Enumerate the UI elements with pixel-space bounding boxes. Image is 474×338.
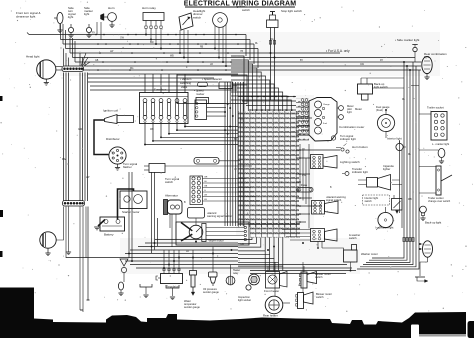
svg-text:Alternator: Alternator (165, 194, 178, 198)
ground rear combination light (424, 77, 429, 80)
ground head light left (44, 83, 49, 86)
lamp front turn signal and clearance light (16, 11, 63, 30)
lamp side turn signal light (68, 6, 76, 35)
svg-text:Ignition coil: Ignition coil (103, 109, 118, 113)
ground lower-left wire end (66, 249, 71, 255)
svg-text:Back-up light: Back-up light (425, 221, 441, 225)
lamp turn signal indicator light (331, 134, 356, 141)
relay heater relay (226, 265, 240, 285)
lamp rear combination light (421, 52, 447, 77)
ground battery (94, 227, 100, 230)
svg-text:light: light (68, 15, 73, 19)
wire dense crossing mesh lower rows (250, 222, 300, 238)
node for USA only (326, 49, 350, 53)
switch headlight dimmer switch (179, 9, 205, 62)
switch blower motor switch upper (299, 266, 331, 288)
svg-text:• Speed: • Speed (194, 88, 204, 92)
vacuum switching valve (177, 75, 247, 104)
gauge combination meter (309, 98, 364, 142)
switch blower motor switch lower (296, 262, 332, 309)
wire left vertical harness bundle (62, 49, 90, 202)
svg-text:clearance light: clearance light (16, 14, 36, 18)
distributor (106, 137, 126, 168)
svg-text:Horn button: Horn button (352, 145, 368, 149)
switch horn button (336, 144, 368, 154)
front heater blower (264, 266, 287, 293)
svg-text:(Fuel): (Fuel) (376, 108, 383, 112)
wire mesh right edge verticals (300, 144, 309, 229)
svg-text:switch: switch (316, 295, 324, 299)
switch hazard warning signal switch (312, 195, 347, 214)
svg-text:GR: GR (204, 177, 208, 179)
oil pressure sender gauge (203, 247, 219, 295)
lamp meter pilot light (337, 104, 354, 119)
svg-text:light switch: light switch (374, 85, 388, 89)
svg-text:change over switch: change over switch (428, 199, 451, 203)
lamp license plate light (120, 259, 128, 282)
switch interior light switch (363, 195, 403, 214)
battery (98, 189, 134, 237)
svg-text:Starter motor: Starter motor (122, 210, 140, 214)
svg-text:warning signal flasher: warning signal flasher (207, 214, 232, 218)
node wire color code labels (92, 33, 406, 253)
switch wiper and washer switch (311, 226, 394, 242)
title (184, 0, 297, 7)
ground side marker lamp (86, 35, 91, 38)
ground distributor (115, 168, 120, 171)
svg-text:sender gauge: sender gauge (184, 305, 200, 309)
wire trunk right branches (373, 62, 422, 270)
scan artifact left black block (0, 288, 34, 320)
ground horn (109, 25, 114, 28)
wire top harness bus (27, 24, 421, 74)
svg-text:L...marker light: L...marker light (432, 142, 449, 146)
svg-text:switch: switch (165, 180, 173, 184)
svg-text:switching: switching (180, 81, 192, 85)
lamp side marker light rear (395, 38, 420, 62)
wire interior accessory feed pair (392, 140, 402, 228)
cigarette lighter (358, 164, 394, 190)
svg-text:Meter: Meter (355, 107, 362, 111)
svg-text:light: light (84, 12, 89, 16)
node lower-left terminal forks (140, 284, 179, 300)
lamp head light left (26, 55, 62, 83)
svg-text:Trailer socket: Trailer socket (427, 106, 444, 110)
wire lower left harness runs (57, 207, 90, 313)
svg-text:Interior light: Interior light (387, 137, 402, 141)
wire bottom harness buses (66, 240, 352, 269)
wire fuse box output staircase (145, 124, 238, 145)
svg-text:WB: WB (408, 199, 412, 201)
ground head light right (45, 253, 50, 256)
svg-text:G: G (204, 190, 206, 192)
svg-text:indicator light: indicator light (340, 137, 356, 141)
scan artifact bottom black band (0, 314, 409, 338)
wire dense crossing mesh upper (238, 97, 309, 228)
wire mid-left vertical drops (129, 172, 158, 262)
svg-text:lighter: lighter (383, 167, 390, 171)
ground side turn signal lamp (68, 35, 73, 38)
svg-text:switch: switch (365, 199, 373, 203)
svg-text:marker: marker (196, 92, 204, 96)
relay accessory relay block (195, 100, 226, 120)
lamp head light right (40, 232, 56, 253)
svg-text:Horn relay: Horn relay (142, 6, 156, 10)
lamp license side marker lamp right (419, 142, 449, 164)
svg-text:Distributor: Distributor (106, 137, 120, 141)
fuse inline fuse (297, 183, 313, 192)
connector combination meter connector (301, 99, 308, 133)
lamp back-up light rear (419, 206, 441, 262)
washer motor (317, 242, 378, 263)
svg-text:Combination meter: Combination meter (339, 125, 364, 129)
lamp transfer indicator light (342, 167, 368, 176)
lamp lower-left wire end lamp (118, 282, 123, 296)
rear heater blower (263, 262, 290, 318)
svg-text:Fuel: Fuel (323, 123, 327, 125)
connector long inline connector (194, 158, 240, 165)
alternator (164, 194, 187, 248)
node scan bleed wash (60, 32, 440, 274)
connector trailer socket (419, 106, 447, 141)
flasher hazard warning signal flasher (188, 208, 233, 227)
svg-text:indicator light: indicator light (352, 170, 368, 174)
scan artifact far right corner mark (468, 321, 474, 338)
svg-text:light socket: light socket (238, 298, 251, 302)
scan artifact bottom right black rectangle (409, 312, 466, 338)
svg-text:Head light: Head light (26, 55, 40, 59)
wire bottom right bus (250, 271, 356, 274)
svg-text:WB: WB (150, 129, 154, 131)
horn (97, 6, 116, 40)
svg-text:Fuse box: Fuse box (154, 88, 167, 92)
ground front turn signal lamp (57, 30, 62, 33)
scan artifact left edge marks (0, 96, 3, 257)
svg-text:Horn: Horn (108, 6, 115, 10)
wiper motor (176, 222, 249, 245)
svg-text:Charge: Charge (323, 104, 330, 106)
svg-text:switch: switch (193, 15, 201, 19)
svg-text:flasher: flasher (123, 165, 132, 169)
relay horn relay (142, 6, 164, 48)
fuse box (140, 74, 189, 124)
water temperature sender gauge (184, 250, 200, 309)
wire mesh feeder rows (296, 118, 340, 222)
switch trailer socket change over switch (419, 166, 452, 203)
svg-text:Lighting switch: Lighting switch (340, 160, 360, 164)
svg-text:Front heater: Front heater (264, 289, 279, 293)
wire staircase harness bends (231, 56, 291, 111)
wire lower staircase bends (238, 238, 283, 271)
svg-text:Regulator: Regulator (166, 285, 179, 289)
wire right main trunk (357, 62, 419, 269)
regulator (156, 250, 183, 289)
clock (376, 207, 393, 230)
flasher turn signal flasher (123, 162, 252, 173)
switch back-up light switch (358, 74, 405, 100)
wire secondary bus rows (88, 78, 237, 90)
lamp inspection light socket front (238, 274, 259, 302)
svg-text:switch: switch (242, 8, 250, 12)
node junction dots (95, 34, 421, 272)
lamp side marker light front (84, 6, 93, 35)
svg-text:GB: GB (204, 186, 208, 188)
ground back-up light (415, 262, 428, 283)
switch turn signal switch (165, 176, 259, 205)
svg-text:valve: valve (181, 85, 188, 89)
ignition coil T1 (94, 109, 134, 155)
svg-text:Battery: Battery (104, 233, 114, 237)
svg-text:• Vacuum: • Vacuum (180, 77, 192, 81)
connector front harness connector strip (62, 53, 90, 72)
switch ignition switch (213, 5, 251, 67)
svg-text:Stop light switch: Stop light switch (281, 9, 302, 13)
switch stop light switch (267, 9, 303, 100)
speed detector (194, 77, 247, 104)
switch lighting switch (311, 155, 361, 169)
lamp interior light (387, 137, 406, 151)
starter motor (120, 191, 147, 214)
wire wiper washer feeds (282, 230, 351, 271)
svg-text:light: light (347, 110, 352, 114)
svg-text:sender gauge: sender gauge (203, 290, 219, 294)
svg-text:Washer motor: Washer motor (361, 252, 378, 256)
connector mid-left connector strip (63, 201, 85, 207)
svg-text:• Speed detector: • Speed detector (202, 77, 222, 81)
wire mid vertical bundle (225, 82, 243, 226)
gauge fuel gauge (355, 105, 395, 138)
